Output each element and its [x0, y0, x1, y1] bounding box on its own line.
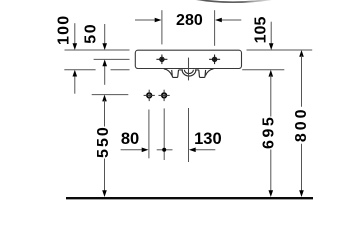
dimension text 105 (rotated): [253, 17, 270, 44]
extension line left fixing hole vertical: [148, 110, 150, 159]
dimension 100: upper arrow pointing down: [73, 23, 78, 50]
dimension text 50 (rotated): [83, 23, 100, 44]
drain inner arc: [184, 70, 193, 74]
underside drain and fixing lugs outline: [164, 69, 214, 78]
drain outer arc: [182, 70, 196, 76]
extension line rim level left: [65, 49, 130, 51]
dimension 105: arrow pointing down to rim line: [269, 22, 274, 50]
floor line: [66, 197, 313, 199]
right extension line underside level: [242, 69, 284, 71]
dimension 695 line with arrows: [269, 70, 274, 197]
svg-text:50: 50: [83, 23, 100, 44]
washbasin body outline: [135, 50, 241, 68]
dimension 50: lower arrow pointing up to tap-hole line: [102, 59, 107, 84]
extension line fixing-hole level: [92, 94, 129, 96]
extension line underside level left (two segments): [64, 69, 129, 71]
dimension 280: left extension line: [161, 10, 163, 44]
right tap hole cross: [209, 55, 220, 65]
svg-text:695: 695: [261, 115, 278, 149]
dimension 80: left arrow pointing right: [121, 148, 149, 153]
extension line right fixing hole vertical: [163, 108, 165, 160]
centre line lower segment: [188, 108, 190, 162]
svg-text:100: 100: [56, 15, 73, 45]
dimension 50: upper arrow pointing down: [102, 24, 107, 50]
svg-text:800: 800: [293, 106, 310, 142]
dimension 800 line with arrows: [299, 50, 304, 197]
left tap hole cross: [156, 55, 167, 65]
dimension 280: right arrow: [215, 18, 241, 23]
dimension text 695 (rotated): [261, 115, 278, 149]
svg-text:550: 550: [95, 125, 112, 158]
svg-text:130: 130: [194, 130, 222, 148]
centre line upper segment: [188, 58, 190, 81]
dimension 80/130 junction dot: [157, 148, 173, 152]
dimension text 800 (rotated): [293, 106, 310, 142]
left fixing hole: [144, 90, 155, 101]
dimension text 550 (rotated): [95, 125, 112, 158]
dimension 130: arrow pointing left to centre line: [189, 148, 215, 153]
dimension 280: left arrow: [135, 18, 162, 23]
svg-text:105: 105: [253, 17, 270, 44]
right extension line rim level: [247, 49, 313, 51]
dimension text 100 (rotated): [56, 15, 73, 45]
svg-text:80: 80: [121, 130, 139, 148]
dimension 550 line with arrows: [102, 95, 107, 197]
right fixing hole: [159, 90, 170, 101]
dimension 280: right extension line: [214, 10, 216, 46]
extension line tap-hole level left: [94, 58, 130, 60]
svg-text:280: 280: [176, 12, 203, 29]
dimension 100: lower arrow pointing up to underside line: [73, 70, 78, 94]
